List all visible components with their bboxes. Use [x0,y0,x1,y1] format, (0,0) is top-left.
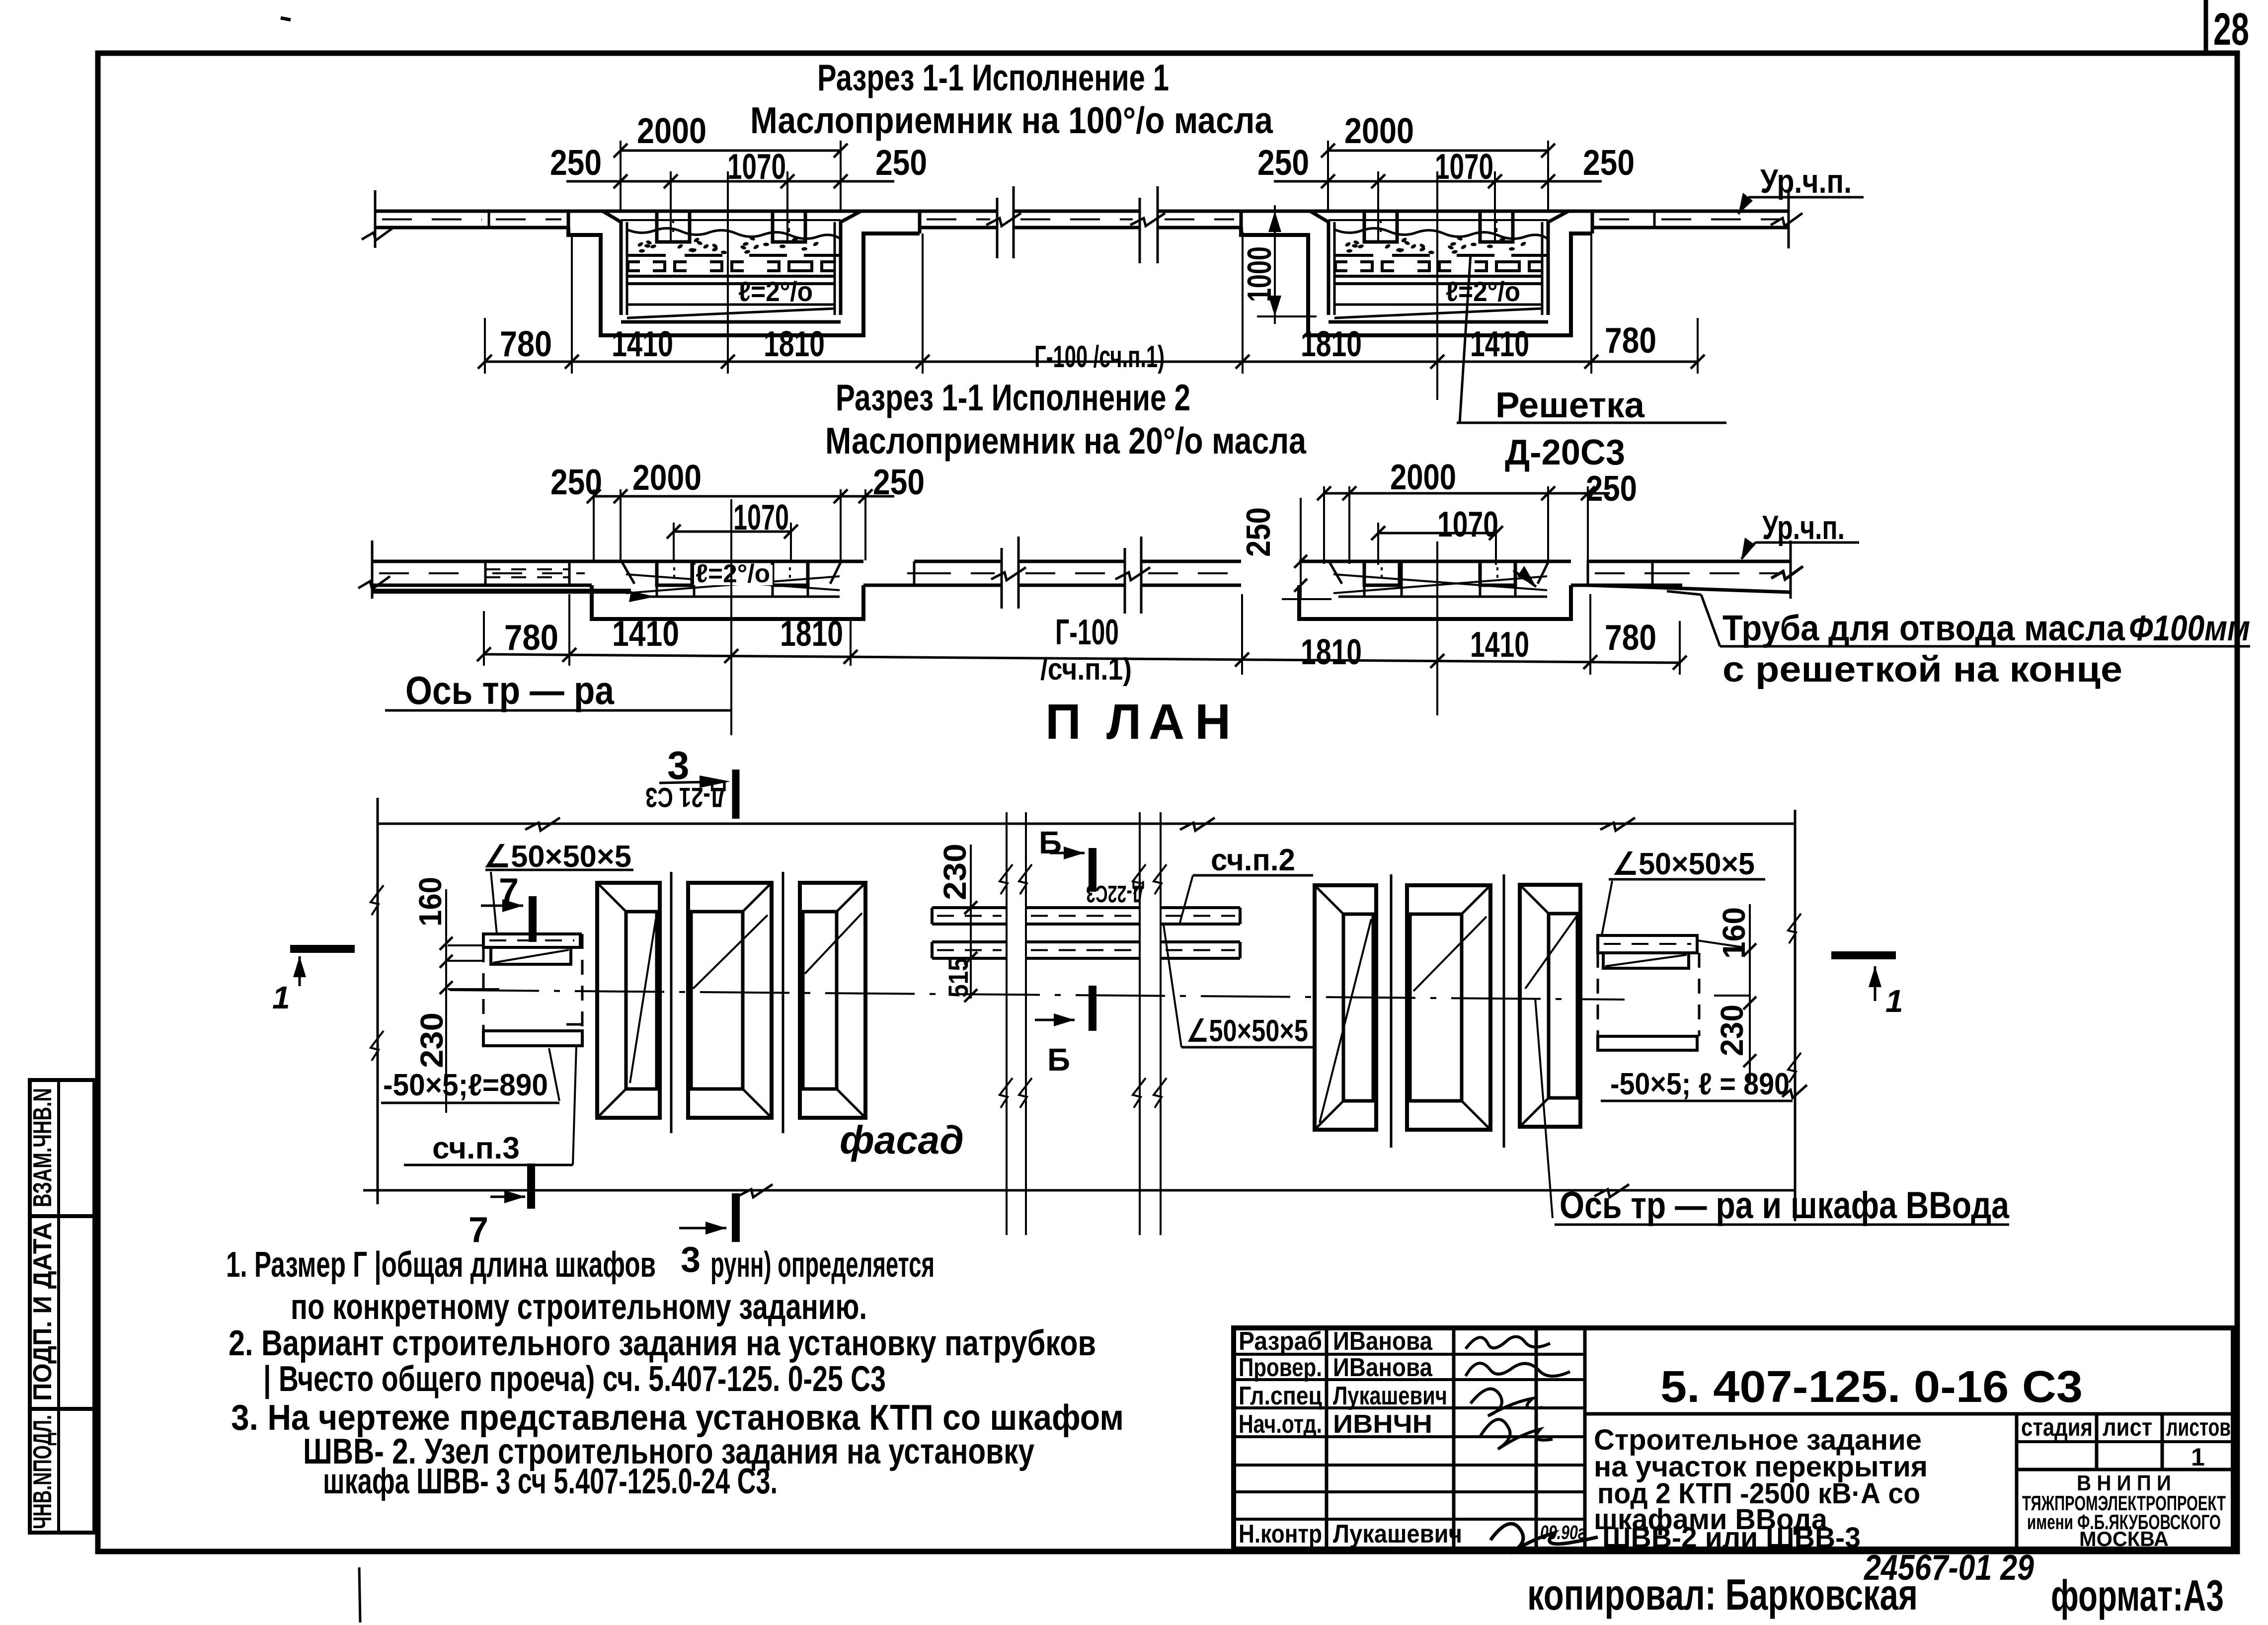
svg-text:515: 515 [942,958,974,998]
right side: ledge and pipe going right [1571,584,1588,587]
svg-text:ℓ=2°/о: ℓ=2°/о [738,276,813,307]
svg-text:250: 250 [1240,507,1277,557]
svg-text:/сч.п.1): /сч.п.1) [1040,652,1132,687]
svg-text:250: 250 [1586,469,1637,509]
svg-text:1: 1 [2191,1443,2205,1471]
svg-text:1810: 1810 [764,324,825,364]
slope lines [1333,576,1547,593]
vertical dim 1000 right instance [1274,205,1276,324]
svg-text:Д-21 С3: Д-21 С3 [645,782,726,813]
svg-text:780: 780 [504,618,558,658]
svg-text:230: 230 [937,844,973,900]
water level line [1329,219,1548,221]
svg-text:А: А [1149,694,1184,750]
svg-text:Маслоприемник на 20°/о масла: Маслоприемник на 20°/о масла [825,420,1307,462]
mid verticals at slab breaks [996,198,999,258]
svg-text:Маслоприемник на 100°/о масла: Маслоприемник на 100°/о масла [750,99,1273,141]
svg-text:230: 230 [414,1012,450,1068]
wavy gravel top [627,228,840,238]
grate dashes row [1335,254,1373,257]
leader from grate [1460,254,1471,423]
tick below frame bottom-left [359,1567,360,1623]
flag 7 bottom [527,1163,535,1209]
support blocks section2 [1364,561,1400,585]
svg-text:ℓ=2°/о: ℓ=2°/о [1446,276,1520,307]
vertical dim 160/230 left [445,889,447,1113]
ground line across channel [1299,560,1571,563]
svg-text:∠50×50×5: ∠50×50×5 [1186,1014,1308,1048]
basin walls [1327,221,1330,315]
svg-text:Н.контр: Н.контр [1239,1520,1322,1548]
gravel dots [693,237,700,243]
svg-text:1810: 1810 [1301,324,1362,364]
svg-text:ПОДП. И ДАТА: ПОДП. И ДАТА [28,1222,57,1401]
svg-text:2000: 2000 [1344,111,1414,151]
basin walls [620,221,623,315]
pipe to the right [1588,585,1791,592]
svg-text:формат:А3: формат:А3 [2051,1571,2224,1620]
channel rim flares [1329,561,1342,584]
svg-text:Г-100 /сч.п.1): Г-100 /сч.п.1) [1034,340,1165,374]
svg-text:ШВВ-2 или ШВВ-3: ШВВ-2 или ШВВ-3 [1602,1522,1861,1554]
svg-text:250: 250 [875,143,927,183]
svg-text:листов: листов [2166,1413,2231,1441]
svg-text:-50×5;ℓ=890: -50×5;ℓ=890 [383,1068,548,1102]
support blocks [657,211,690,242]
svg-text:5. 407-125. 0-16 С3: 5. 407-125. 0-16 С3 [1660,1362,2083,1412]
dim 250 + 1070 line [1274,180,1602,183]
ground line over pit [1241,210,1592,213]
channel interior verticals [656,561,658,597]
svg-text:Ф100мм: Ф100мм [2129,609,2250,648]
svg-text:Б: Б [1047,1042,1070,1078]
svg-text:-50×5; ℓ = 890: -50×5; ℓ = 890 [1610,1067,1790,1101]
svg-text:Г-100: Г-100 [1055,613,1119,652]
flag B bottom [1089,986,1096,1031]
svg-text:Ось тр — ра: Ось тр — ра [405,668,614,712]
svg-text:2. Вариант строительного задан: 2. Вариант строительного задания на уста… [229,1323,1096,1363]
dim 2000 [1328,150,1548,152]
svg-text:Ось тр — ра и шкафа ВВода: Ось тр — ра и шкафа ВВода [1560,1184,2010,1227]
right rail assembly [1598,935,1697,953]
leader line right rail [1697,940,1744,947]
basin rim flares [1310,211,1329,222]
section 2 slabs [372,560,485,563]
svg-text:стадия: стадия [2021,1413,2093,1441]
svg-text:1070: 1070 [733,498,789,538]
section mark 1 left [290,945,355,953]
svg-text:780: 780 [500,324,552,364]
svg-text:24567-01 29: 24567-01 29 [1863,1548,2034,1588]
svg-text:1410: 1410 [612,324,673,364]
oil pipe left (dark line under slab) [372,589,631,594]
title block left columns [1325,1328,1329,1549]
rebar hook symbols [1335,262,1347,271]
svg-text:МОСКВА: МОСКВА [2079,1527,2169,1550]
svg-text:1. Размер Г |общая длина шкафо: 1. Размер Г |общая длина шкафов [226,1245,656,1285]
vertical dim 160/230 right [1749,904,1751,1083]
dim 2000 [621,150,841,152]
slab lines in basin [627,275,835,278]
slab lines in basin [1334,275,1542,278]
svg-text:по конкретному строительному з: по конкретному строительному заданию. [291,1287,867,1327]
dashed cabinet outline [581,934,584,1044]
center rails (two bands) [932,906,1007,909]
i=2% text section2 left [694,565,773,585]
svg-text:1810: 1810 [780,614,843,654]
svg-text:2000: 2000 [1390,458,1456,497]
svg-text:250: 250 [550,463,602,502]
grate dashes row [628,254,666,257]
svg-text:Решетка: Решетка [1495,386,1645,425]
svg-text:ИВанова: ИВанова [1333,1353,1433,1382]
svg-text:160: 160 [412,877,448,927]
angle piece below [491,947,571,964]
shallow channel pit [1299,585,1571,619]
svg-text:Разрез 1-1 Исполнение 1: Разрез 1-1 Исполнение 1 [817,57,1169,98]
plan top dimension line [378,823,1795,825]
svg-text:Лукашевич: Лукашевич [1333,1520,1462,1548]
basin floor lines [1334,304,1542,306]
extension lines [484,318,486,374]
svg-text:1070: 1070 [1437,505,1498,544]
left rail assembly [483,934,580,947]
big cell divider [1585,1412,2233,1416]
support blocks [1364,211,1397,242]
channel bottom line [1338,596,1547,598]
bottom bar [483,1031,582,1046]
svg-text:28: 28 [2213,4,2249,55]
left slab end tick [374,190,377,248]
gravel dots [1401,237,1408,243]
dim 250 + 1070 line [566,180,894,183]
cut verticals around B section [1006,812,1008,1235]
svg-text:шкафа ШВВ- 3 сч 5.407-125.0-24: шкафа ШВВ- 3 сч 5.407-125.0-24 С3. [323,1462,778,1501]
leader to pipe [1701,595,1720,646]
slab right of right pit [1592,210,1654,213]
svg-text:Л: Л [1106,694,1141,750]
svg-text:ИВНЧН: ИВНЧН [1333,1410,1432,1439]
svg-text:сч.п.3: сч.п.3 [432,1131,520,1165]
svg-text:Труба для отвода масла: Труба для отвода масла [1722,609,2125,648]
lower dimension line section 1 [485,361,1698,363]
svg-text:2000: 2000 [632,458,702,498]
svg-text:копировал: Барковская: копировал: Барковская [1527,1570,1918,1619]
left slab band [375,210,489,213]
right slab end tick [1788,190,1790,248]
basin rim flares [603,211,621,222]
between pits slab [914,560,1002,563]
svg-text:рунн) определяется: рунн) определяется [710,1245,935,1285]
svg-text:250: 250 [1257,143,1309,183]
slope lines [626,576,840,593]
svg-text:1000: 1000 [1241,246,1278,302]
svg-text:с решеткой на конце: с решеткой на конце [1722,650,2122,690]
svg-text:250: 250 [873,463,925,502]
vertical dim 250 left of right instance [1300,498,1302,599]
svg-text:ℓ=2°/о: ℓ=2°/о [696,559,770,588]
section 2 dims above right [1324,492,1610,495]
channel rim flares [622,561,634,584]
title block row lines [1234,1353,1585,1356]
plan right vertical [1794,810,1797,1221]
svg-text:3: 3 [681,1240,701,1280]
channel interior verticals [1363,561,1366,597]
svg-text:230: 230 [1714,1005,1750,1056]
section 2 lower dim line [484,654,1680,663]
rebar hook symbols [628,262,640,271]
plan boundary left vertical [377,798,379,1204]
svg-text:фасад: фасад [840,1118,964,1162]
svg-text:Лукашевич: Лукашевич [1333,1382,1447,1410]
svg-text:ЧНВ.NПОДЛ.: ЧНВ.NПОДЛ. [28,1415,57,1529]
svg-text:Д-20С3: Д-20С3 [1505,433,1625,472]
section 2 dims above left [594,495,894,498]
svg-text:сч.п.2: сч.п.2 [1211,843,1295,877]
svg-text:780: 780 [1605,321,1656,361]
svg-text:П: П [1045,694,1081,750]
svg-text:Нач.отд.: Нач.отд. [1239,1410,1322,1439]
svg-text:Ур.ч.п.: Ур.ч.п. [1762,509,1845,546]
svg-text:3: 3 [667,743,690,787]
svg-text:1810: 1810 [1301,632,1362,672]
svg-text:1: 1 [272,980,290,1015]
svg-text:250: 250 [1583,143,1635,183]
section mark 1 right [1831,951,1896,959]
svg-text:Провер.: Провер. [1239,1353,1322,1382]
vertical dim 230/515 center [970,845,972,999]
svg-text:Разрез 1-1 Исполнение 2: Разрез 1-1 Исполнение 2 [836,377,1190,418]
svg-text:Гл.спец: Гл.спец [1239,1382,1322,1410]
svg-text:1410: 1410 [612,614,679,654]
plan bottom boundary [363,1189,1795,1192]
svg-text:1410: 1410 [1470,324,1529,364]
support blocks section2 [657,561,692,585]
svg-text:1410: 1410 [1470,625,1529,665]
left end tick s2 [371,541,374,599]
axis verticals s2 [730,499,732,735]
left group door frames [597,883,660,1118]
svg-text:1070: 1070 [1435,147,1493,187]
basin floor lines [627,304,835,306]
ground line across channel [592,560,863,563]
pit outer outline [568,228,920,335]
extension lines s2 [483,611,485,666]
water level line [621,219,841,221]
hatched slab block left [489,210,568,213]
slab between pits [920,210,997,213]
title block outer [1234,1328,2233,1549]
svg-text:Б: Б [1039,825,1062,860]
thin internal diagonals in frames [630,919,656,1083]
ground line over pit [568,210,920,213]
arrow into channel right instance [1513,570,1536,587]
svg-text:лист: лист [2103,1413,2152,1441]
svg-text:2000: 2000 [637,111,706,151]
svg-text:Разраб: Разраб [1239,1327,1322,1356]
svg-text:7: 7 [469,1210,488,1250]
signatures (squiggles) [1466,1337,1550,1349]
svg-text:1: 1 [1885,983,1903,1019]
svg-text:780: 780 [1605,618,1656,658]
svg-text:Ур.ч.п.: Ур.ч.п. [1760,162,1852,200]
left stamp boxes [30,1080,94,1533]
svg-text:250: 250 [550,143,602,183]
flag 3 bottom (notes superscript) [732,1193,740,1242]
sheet number box 28 [2204,0,2208,53]
svg-text:| Вчесто общего проеча) сч. 5.: | Вчесто общего проеча) сч. 5.407-125. 0… [263,1359,886,1399]
band left caps [931,908,934,924]
svg-text:1070: 1070 [727,147,786,187]
horizontal center axis dash-dot [450,990,1625,1000]
wavy gravel top [1334,228,1547,238]
svg-text:Н: Н [1195,694,1231,750]
channel bottom line [631,596,840,598]
slab break marks [986,213,1021,226]
leader into rail [448,988,499,990]
svg-text:ВЗАМ.ЧНВ.N: ВЗАМ.ЧНВ.N [28,1088,57,1207]
pit outer outline [1241,228,1592,335]
shallow channel pit [592,585,863,619]
svg-text:160: 160 [1716,907,1752,959]
svg-text:∠50×50×5: ∠50×50×5 [1612,847,1755,881]
panel joint verticals [670,872,673,1133]
svg-text:ИВанова: ИВанова [1333,1327,1433,1356]
